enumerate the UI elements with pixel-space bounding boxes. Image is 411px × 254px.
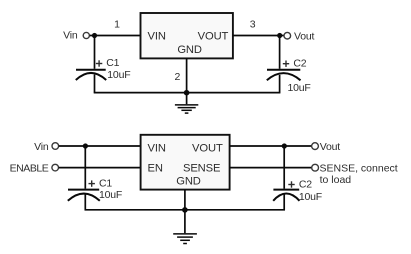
svg-text:ENABLE: ENABLE bbox=[10, 163, 49, 175]
junction node at C1 tap (bottom) bbox=[83, 143, 88, 148]
svg-text:Vin: Vin bbox=[63, 30, 78, 42]
wire U1 VOUT pin3 to Vout terminal bbox=[233, 35, 284, 37]
capacitor C2 (top) top plate bbox=[267, 69, 300, 71]
junction node at C2 tap (bottom) bbox=[282, 143, 287, 148]
junction node at C1 tap (top) bbox=[92, 33, 97, 38]
capacitor C1 (top) plus sign bbox=[96, 63, 102, 65]
wire C2 to bottom rail (bottom) bbox=[283, 195, 285, 210]
svg-text:GND: GND bbox=[176, 175, 201, 187]
terminal Vout (top) bbox=[284, 32, 291, 39]
junction node at ground (bottom) bbox=[182, 207, 188, 213]
capacitor C1 (top) curved plate bbox=[76, 73, 106, 80]
svg-text:C1: C1 bbox=[99, 177, 112, 189]
svg-text:Vin: Vin bbox=[34, 141, 49, 153]
wire C1 to bottom rail (bottom) bbox=[84, 195, 86, 210]
terminal ENABLE bbox=[52, 164, 59, 171]
wire U2 VOUT to Vout terminal bbox=[230, 145, 312, 147]
wire Vin to U2 VIN bbox=[59, 145, 141, 147]
wire U2 GND to rail bbox=[184, 190, 186, 210]
bottom rail wire (top circuit) bbox=[94, 92, 281, 94]
svg-text:10uF: 10uF bbox=[107, 69, 130, 81]
svg-text:VIN: VIN bbox=[148, 142, 166, 154]
svg-text:10uF: 10uF bbox=[299, 191, 322, 203]
wire C2 to bottom rail bbox=[279, 75, 281, 93]
ground symbol (top circuit) bbox=[175, 93, 198, 114]
wire ENABLE to U2 EN bbox=[59, 167, 141, 169]
svg-text:C2: C2 bbox=[293, 57, 306, 69]
svg-text:VOUT: VOUT bbox=[198, 31, 229, 43]
svg-text:to load: to load bbox=[320, 174, 352, 186]
svg-text:SENSE: SENSE bbox=[183, 162, 220, 174]
wire U2 SENSE to SENSE terminal bbox=[230, 167, 312, 169]
terminal Vin (bottom) bbox=[52, 143, 59, 150]
wire Vin to U1 VIN pin1 bbox=[90, 35, 141, 37]
svg-text:Vout: Vout bbox=[320, 141, 341, 153]
wire C2 junction to C2 top plate bbox=[279, 36, 281, 69]
svg-text:10uF: 10uF bbox=[288, 82, 311, 94]
wire junction to C2 top plate (bottom) bbox=[283, 146, 285, 189]
svg-text:C2: C2 bbox=[299, 178, 312, 190]
capacitor C1 (bottom) top plate bbox=[68, 189, 99, 191]
bottom rail wire (bottom circuit) bbox=[85, 209, 286, 211]
svg-text:SENSE, connect: SENSE, connect bbox=[320, 162, 398, 174]
junction node at ground (top) bbox=[184, 90, 190, 96]
regulator U1 body bbox=[141, 13, 233, 58]
svg-text:EN: EN bbox=[148, 162, 163, 174]
capacitor C2 (bottom) top plate bbox=[273, 189, 299, 191]
capacitor C1 (bottom) plus sign bbox=[89, 183, 95, 185]
capacitor C1 (top) top plate bbox=[76, 69, 106, 71]
svg-text:3: 3 bbox=[250, 19, 256, 31]
capacitor C2 (top) curved plate bbox=[267, 73, 301, 80]
ground symbol (bottom circuit) bbox=[173, 210, 197, 244]
terminal Vout (bottom) bbox=[312, 143, 319, 150]
svg-text:2: 2 bbox=[174, 71, 180, 83]
capacitor C1 (bottom) curved plate bbox=[68, 194, 100, 201]
junction node at C2 tap (top) bbox=[277, 33, 282, 38]
svg-text:10uF: 10uF bbox=[99, 189, 122, 201]
terminal Vin (top) bbox=[83, 32, 89, 38]
capacitor C2 (bottom) curved plate bbox=[273, 194, 299, 201]
capacitor C2 (top) plus sign bbox=[283, 63, 289, 65]
svg-text:GND: GND bbox=[177, 44, 202, 56]
svg-text:Vout: Vout bbox=[294, 30, 315, 42]
wire junction to C1 top plate (bottom) bbox=[84, 146, 86, 189]
svg-text:1: 1 bbox=[114, 19, 120, 31]
capacitor C2 (bottom) plus sign bbox=[288, 184, 294, 186]
svg-text:VOUT: VOUT bbox=[192, 142, 223, 154]
wire U1 GND pin2 to rail bbox=[186, 58, 188, 92]
regulator U2 body bbox=[141, 135, 230, 190]
wire C1 to bottom rail bbox=[94, 75, 96, 93]
svg-text:VIN: VIN bbox=[148, 31, 166, 43]
terminal SENSE bbox=[312, 164, 319, 171]
svg-text:C1: C1 bbox=[106, 57, 119, 69]
wire junction to C1 top plate bbox=[94, 36, 96, 69]
